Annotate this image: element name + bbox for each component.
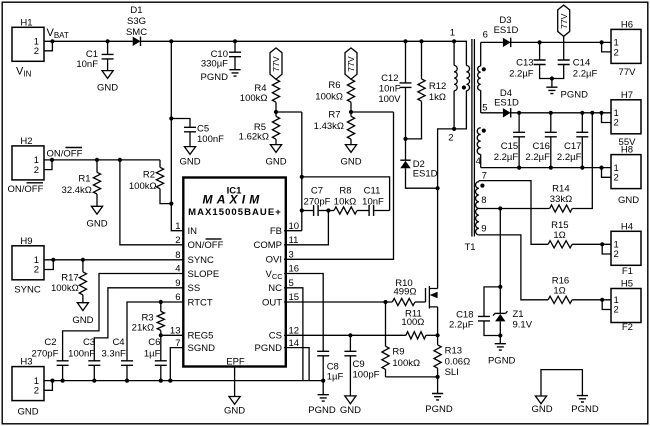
svg-text:NC: NC bbox=[268, 283, 282, 294]
svg-text:IN: IN bbox=[188, 226, 198, 237]
diode D2 ES1D bbox=[400, 139, 437, 188]
svg-text:1Ω: 1Ω bbox=[553, 286, 565, 297]
svg-text:100nF: 100nF bbox=[68, 348, 95, 359]
svg-text:ES1D: ES1D bbox=[413, 169, 438, 180]
ground GND (R1) bbox=[86, 206, 107, 229]
svg-text:GND: GND bbox=[97, 83, 118, 94]
svg-text:OVI: OVI bbox=[266, 255, 282, 266]
wire drain/source vertical bbox=[437, 287, 439, 336]
svg-text:1: 1 bbox=[175, 221, 180, 232]
svg-text:R6: R6 bbox=[328, 80, 340, 91]
junction C13/C14 ground bbox=[550, 76, 554, 87]
wire H6 pin stubs bbox=[602, 42, 611, 52]
wire OVI net bbox=[284, 112, 394, 259]
svg-text:ES1D: ES1D bbox=[494, 25, 519, 36]
diode D3 ES1D bbox=[494, 15, 519, 47]
svg-text:SMC: SMC bbox=[126, 27, 147, 38]
resistor R12 bbox=[406, 39, 447, 139]
svg-text:100V: 100V bbox=[378, 94, 401, 105]
connector H2 (ON/OFF) bbox=[12, 136, 44, 180]
wire R15 to H4 bbox=[572, 242, 611, 246]
resistor R8 bbox=[328, 185, 369, 214]
transformer T1 winding pins 5-4 bbox=[476, 128, 486, 168]
svg-text:C12: C12 bbox=[381, 73, 398, 84]
ground PGND (C8) bbox=[308, 395, 336, 416]
transformer T1 primary winding A bbox=[448, 28, 457, 144]
wire H7 pin stubs bbox=[602, 113, 612, 123]
resistor R6 bbox=[315, 79, 354, 102]
wire pin9 to R16 bbox=[479, 235, 548, 300]
svg-text:GND: GND bbox=[265, 157, 286, 168]
diode D4 ES1D bbox=[494, 88, 519, 118]
svg-text:C9: C9 bbox=[353, 359, 365, 370]
svg-text:100pF: 100pF bbox=[353, 370, 380, 381]
svg-text:F1: F1 bbox=[622, 266, 633, 277]
diode D1 S3G SMC bbox=[126, 5, 147, 46]
svg-text:10kΩ: 10kΩ bbox=[334, 196, 356, 207]
svg-text:7: 7 bbox=[482, 171, 487, 182]
svg-text:4: 4 bbox=[476, 156, 481, 167]
capacitor C16 bbox=[525, 113, 556, 168]
ground PGND (Z1) bbox=[488, 344, 516, 367]
svg-text:499Ω: 499Ω bbox=[394, 287, 417, 298]
capacitor C8 bbox=[317, 351, 343, 394]
svg-text:77V: 77V bbox=[346, 56, 356, 72]
IC1 pin name labels bbox=[188, 226, 284, 354]
svg-text:PGND: PGND bbox=[255, 343, 283, 354]
wire H4 pin2 stub bbox=[602, 244, 611, 254]
svg-text:T1: T1 bbox=[464, 242, 475, 253]
capacitor C15 bbox=[494, 113, 525, 168]
svg-text:GND: GND bbox=[618, 195, 639, 206]
svg-text:H9: H9 bbox=[20, 236, 32, 247]
wire H2 pin stubs bbox=[44, 158, 54, 170]
svg-text:OUT: OUT bbox=[262, 297, 282, 308]
svg-text:6: 6 bbox=[483, 30, 488, 41]
svg-text:C11: C11 bbox=[364, 185, 381, 196]
svg-text:2: 2 bbox=[34, 46, 39, 57]
capacitor C18 bbox=[449, 287, 500, 336]
transformer T1 core bbox=[464, 39, 475, 253]
connector H4 (F1) bbox=[611, 221, 641, 277]
svg-text:2.2µF: 2.2µF bbox=[449, 320, 474, 331]
wire 77V output rail bbox=[511, 40, 604, 44]
ground GND (R5) bbox=[265, 145, 286, 168]
svg-text:H2: H2 bbox=[20, 136, 32, 147]
svg-text:ON/OFF: ON/OFF bbox=[8, 184, 44, 195]
wire ON/OFF net bbox=[52, 158, 160, 162]
svg-text:2: 2 bbox=[614, 118, 619, 129]
wire pin8 to R14 bbox=[479, 206, 550, 210]
svg-text:H1: H1 bbox=[20, 17, 32, 28]
svg-text:MAX15005BAUE+: MAX15005BAUE+ bbox=[188, 207, 282, 218]
junction R6/R7 divider bbox=[349, 102, 353, 116]
capacitor C5 bbox=[171, 119, 224, 147]
ground GND (C1) bbox=[97, 71, 118, 94]
svg-text:32.4kΩ: 32.4kΩ bbox=[62, 185, 92, 196]
svg-text:100kΩ: 100kΩ bbox=[315, 92, 343, 103]
svg-text:C7: C7 bbox=[311, 185, 323, 196]
resistor R10 bbox=[392, 278, 425, 306]
transformer T1 primary winding B bbox=[454, 41, 469, 129]
svg-text:R8: R8 bbox=[339, 185, 351, 196]
wire EPF to ground bbox=[234, 367, 236, 397]
resistor R2 bbox=[129, 160, 171, 204]
svg-text:2: 2 bbox=[614, 47, 619, 58]
connector H1 (V_IN input) bbox=[12, 17, 44, 78]
svg-text:C2: C2 bbox=[44, 337, 56, 348]
svg-text:1µF: 1µF bbox=[327, 372, 344, 383]
junction C12 top bbox=[403, 39, 407, 43]
ground GND (tie) bbox=[531, 396, 552, 415]
net flag 77V (R6) bbox=[345, 48, 357, 79]
svg-text:RTCT: RTCT bbox=[188, 297, 213, 308]
svg-text:EPF: EPF bbox=[226, 357, 245, 368]
IC1 pin numbers bbox=[170, 221, 299, 349]
svg-text:GND: GND bbox=[179, 157, 200, 168]
junction D2 anode / drain node bbox=[436, 186, 440, 190]
svg-text:SYNC: SYNC bbox=[14, 285, 41, 296]
svg-text:SLI: SLI bbox=[445, 367, 459, 378]
net label ON/OFF (below H2) bbox=[8, 183, 44, 195]
wire pin8 to zener branch bbox=[498, 209, 502, 290]
svg-text:ON/OFF: ON/OFF bbox=[188, 240, 224, 251]
svg-text:2.2µF: 2.2µF bbox=[509, 69, 534, 80]
svg-text:1.62kΩ: 1.62kΩ bbox=[239, 132, 269, 143]
svg-text:R1: R1 bbox=[78, 174, 90, 185]
zener Z1 9.1V bbox=[493, 287, 533, 336]
wire FB node bbox=[284, 112, 304, 231]
svg-text:1Ω: 1Ω bbox=[553, 230, 565, 241]
svg-text:H3: H3 bbox=[20, 357, 32, 368]
svg-text:10nF: 10nF bbox=[379, 84, 401, 95]
svg-text:100Ω: 100Ω bbox=[401, 317, 424, 328]
svg-text:9.1V: 9.1V bbox=[513, 319, 533, 330]
wire PGND pin net bbox=[284, 348, 309, 381]
transistor Q1 n-channel MOSFET bbox=[426, 286, 438, 309]
svg-text:R9: R9 bbox=[392, 347, 404, 358]
ground PGND (tie) bbox=[571, 396, 599, 415]
ground GND (C5) bbox=[179, 147, 200, 168]
svg-text:2.2µF: 2.2µF bbox=[525, 152, 550, 163]
ground PGND (C10) bbox=[201, 70, 241, 83]
resistor R17 bbox=[51, 260, 87, 303]
ground PGND (R13) bbox=[425, 394, 453, 416]
net label ON/OFF (top) bbox=[47, 148, 83, 160]
wire SLOPE net bbox=[63, 274, 184, 361]
svg-text:R2: R2 bbox=[143, 169, 155, 180]
svg-text:COMP: COMP bbox=[254, 240, 283, 251]
wire COMP net bbox=[284, 211, 328, 245]
svg-text:H7: H7 bbox=[621, 90, 633, 101]
wire OUT net bbox=[284, 300, 392, 304]
resistor R3 bbox=[132, 302, 165, 335]
svg-text:GND: GND bbox=[340, 405, 361, 416]
svg-text:PGND: PGND bbox=[571, 404, 599, 415]
svg-text:C15: C15 bbox=[501, 141, 518, 152]
svg-text:2: 2 bbox=[614, 173, 619, 184]
svg-text:33kΩ: 33kΩ bbox=[550, 194, 572, 205]
svg-text:100nF: 100nF bbox=[197, 134, 224, 145]
wire CS net bbox=[284, 333, 406, 337]
svg-text:R7: R7 bbox=[328, 110, 340, 121]
svg-text:H4: H4 bbox=[621, 221, 633, 232]
svg-text:H5: H5 bbox=[621, 279, 633, 290]
svg-text:S3G: S3G bbox=[127, 16, 146, 27]
svg-text:GND: GND bbox=[72, 315, 93, 326]
capacitor C10 bbox=[201, 41, 241, 69]
svg-text:PGND: PGND bbox=[308, 405, 336, 416]
connector H9 (SYNC) bbox=[12, 236, 44, 296]
capacitor C17 bbox=[557, 113, 588, 168]
capacitor C11 bbox=[362, 185, 389, 216]
connector H3 (GND) bbox=[12, 357, 44, 418]
svg-text:PGND: PGND bbox=[201, 72, 229, 83]
ground GND (EPF) bbox=[224, 397, 245, 417]
svg-text:330µF: 330µF bbox=[201, 59, 228, 70]
resistor R7 bbox=[314, 110, 355, 145]
net flag 77V (R4) bbox=[270, 48, 282, 79]
svg-text:77V: 77V bbox=[619, 67, 637, 78]
wire RTCT net bbox=[127, 300, 184, 361]
resistor R5 bbox=[239, 116, 280, 144]
wire pin4 rail bbox=[481, 166, 604, 170]
svg-text:270pF: 270pF bbox=[31, 348, 58, 359]
svg-text:3.3nF: 3.3nF bbox=[102, 348, 126, 359]
wire FB divider tap bbox=[276, 111, 302, 113]
svg-text:8: 8 bbox=[481, 195, 486, 206]
junction R4/R5 divider bbox=[274, 102, 278, 116]
wire ON/OFF to pin2 bbox=[120, 160, 184, 245]
svg-text:1.43kΩ: 1.43kΩ bbox=[314, 121, 344, 132]
svg-text:PGND: PGND bbox=[425, 404, 453, 415]
svg-text:10nF: 10nF bbox=[76, 59, 98, 70]
svg-text:2: 2 bbox=[448, 133, 453, 144]
svg-text:PGND: PGND bbox=[488, 356, 516, 367]
connector H8 (secondary GND) bbox=[611, 145, 641, 206]
svg-text:2: 2 bbox=[34, 265, 39, 276]
svg-text:GND: GND bbox=[531, 404, 552, 415]
svg-text:R13: R13 bbox=[445, 345, 462, 356]
wire compensation top bracket bbox=[302, 177, 390, 211]
svg-text:SYNC: SYNC bbox=[188, 255, 215, 266]
svg-text:GND: GND bbox=[224, 406, 245, 417]
svg-text:C16: C16 bbox=[532, 141, 549, 152]
svg-text:SS: SS bbox=[188, 283, 201, 294]
wire signal ground rail bbox=[50, 379, 325, 383]
svg-text:2.2µF: 2.2µF bbox=[557, 152, 582, 163]
wire 55V output rail bbox=[511, 111, 604, 115]
svg-text:2: 2 bbox=[34, 386, 39, 397]
transformer T1 winding pins 6-5 bbox=[478, 30, 488, 114]
ground GND (C9) bbox=[340, 396, 361, 416]
wire REG5 net bbox=[159, 333, 184, 337]
junction CS/source bbox=[436, 333, 440, 337]
resistor R4 bbox=[240, 79, 280, 104]
svg-text:Z1: Z1 bbox=[513, 309, 524, 320]
svg-text:GND: GND bbox=[17, 407, 38, 418]
svg-text:100kΩ: 100kΩ bbox=[129, 181, 157, 192]
svg-text:CS: CS bbox=[269, 331, 282, 342]
ground GND (R17) bbox=[72, 303, 93, 326]
wire SS net bbox=[94, 288, 184, 361]
ground GND (R7) bbox=[340, 145, 361, 168]
junction Z1 anode bbox=[498, 333, 502, 343]
resistor R15 bbox=[548, 220, 572, 248]
svg-text:10nF: 10nF bbox=[362, 196, 384, 207]
capacitor C7 bbox=[302, 185, 331, 216]
wire SYNC net bbox=[53, 258, 184, 262]
svg-text:2: 2 bbox=[614, 305, 619, 316]
svg-text:77V: 77V bbox=[559, 13, 569, 29]
wire H1 pin stubs bbox=[44, 39, 55, 51]
svg-text:D1: D1 bbox=[130, 5, 142, 16]
svg-text:SGND: SGND bbox=[188, 343, 216, 354]
transformer T1 winding pins 8-9 bbox=[476, 208, 487, 234]
svg-text:1µF: 1µF bbox=[144, 348, 161, 359]
connector H7 (55V output) bbox=[611, 90, 641, 148]
svg-text:100kΩ: 100kΩ bbox=[240, 93, 268, 104]
svg-text:21kΩ: 21kΩ bbox=[132, 323, 154, 334]
wire H3 pin stubs bbox=[44, 381, 52, 391]
resistor R9 bbox=[382, 302, 420, 377]
wire pin6 rail bbox=[481, 41, 503, 43]
capacitor C2 bbox=[31, 337, 68, 380]
transformer T1 winding pins 7-8 bbox=[476, 171, 487, 209]
svg-text:C13: C13 bbox=[516, 57, 533, 68]
svg-text:SLOPE: SLOPE bbox=[188, 269, 220, 280]
svg-text:2.2µF: 2.2µF bbox=[573, 69, 598, 80]
resistor R1 bbox=[62, 160, 101, 206]
net flag 77V (output) bbox=[558, 5, 570, 60]
svg-text:77V: 77V bbox=[271, 56, 281, 72]
resistor R11 bbox=[401, 309, 437, 339]
svg-text:2: 2 bbox=[34, 165, 39, 176]
resistor R13 bbox=[434, 335, 470, 378]
wire R14 to 55V rail bbox=[572, 113, 592, 209]
op-amp/controller IC1 MAX15005BAUE+ box bbox=[183, 178, 285, 368]
svg-text:1kΩ: 1kΩ bbox=[429, 92, 446, 103]
wire R16 to H5 bbox=[572, 298, 611, 302]
capacitor C14 bbox=[552, 57, 598, 79]
svg-text:REG5: REG5 bbox=[188, 331, 214, 342]
junction R13 bottom bbox=[436, 375, 440, 394]
capacitor C12 bbox=[378, 41, 411, 139]
wire H9 pin stubs bbox=[44, 258, 55, 270]
svg-text:GND: GND bbox=[340, 157, 361, 168]
connector H5 (F2) bbox=[611, 279, 641, 334]
wire pin5 rail bbox=[481, 112, 503, 114]
wire ground tie bbox=[541, 370, 582, 396]
svg-text:C6: C6 bbox=[148, 337, 160, 348]
wire H8 pin stubs bbox=[602, 168, 612, 178]
svg-text:270pF: 270pF bbox=[304, 196, 331, 207]
capacitor C6 bbox=[144, 335, 167, 380]
svg-text:R12: R12 bbox=[429, 81, 446, 92]
wire SGND net bbox=[170, 348, 184, 381]
svg-text:C3: C3 bbox=[83, 337, 95, 348]
svg-text:ES1D: ES1D bbox=[494, 98, 519, 109]
svg-text:5: 5 bbox=[482, 103, 487, 114]
capacitor C13 bbox=[509, 42, 552, 79]
svg-text:R17: R17 bbox=[61, 272, 78, 283]
svg-text:GND: GND bbox=[86, 219, 107, 230]
svg-text:2: 2 bbox=[614, 249, 619, 260]
svg-text:F2: F2 bbox=[622, 322, 633, 333]
svg-text:H8: H8 bbox=[621, 145, 633, 156]
svg-text:1: 1 bbox=[450, 28, 455, 39]
svg-text:C17: C17 bbox=[564, 141, 581, 152]
resistor R14 bbox=[550, 184, 573, 213]
svg-text:9: 9 bbox=[481, 223, 486, 234]
wire H5 pin2 stub bbox=[602, 300, 611, 310]
junction snubber bottom bbox=[403, 137, 407, 141]
capacitor C9 bbox=[344, 335, 379, 396]
resistor R16 bbox=[548, 276, 572, 304]
wire VCC net bbox=[284, 274, 323, 352]
svg-text:FB: FB bbox=[270, 226, 282, 237]
svg-text:C14: C14 bbox=[573, 57, 590, 68]
svg-text:H6: H6 bbox=[621, 19, 633, 30]
junction C7/R8 bbox=[326, 208, 330, 212]
capacitor C1 bbox=[76, 41, 113, 70]
ground PGND (C13/C14) bbox=[546, 87, 588, 100]
capacitor C4 bbox=[102, 337, 133, 380]
svg-text:2.2µF: 2.2µF bbox=[494, 152, 519, 163]
svg-text:100kΩ: 100kΩ bbox=[51, 283, 79, 294]
wire NC net bbox=[284, 288, 303, 381]
wire R9 bottom to SLI rail bbox=[386, 376, 438, 378]
capacitor C3 bbox=[68, 337, 100, 380]
wire pin7 to R15 bbox=[479, 181, 548, 245]
svg-text:PGND: PGND bbox=[561, 90, 589, 101]
svg-text:100kΩ: 100kΩ bbox=[392, 358, 420, 369]
wire VBAT rail bbox=[52, 39, 454, 43]
svg-text:C4: C4 bbox=[112, 337, 124, 348]
wire T1 pin2 to drain bbox=[438, 129, 455, 287]
svg-text:MAXIM: MAXIM bbox=[203, 193, 264, 207]
wire VBAT branch to IN pin bbox=[169, 41, 184, 230]
svg-text:R14: R14 bbox=[552, 184, 569, 195]
connector H6 (77V output) bbox=[611, 19, 641, 78]
wire OVI divider tap bbox=[351, 111, 394, 113]
net label V_BAT bbox=[47, 27, 69, 40]
